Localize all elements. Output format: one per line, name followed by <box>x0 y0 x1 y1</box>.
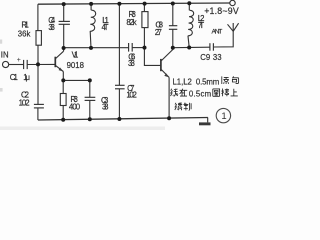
svg-text:C1: C1 <box>10 73 18 82</box>
glyph shang (on) line2 <box>231 89 238 96</box>
resistor R3 82k <box>142 4 148 48</box>
inductor L1 <box>90 4 96 48</box>
node rail C7 <box>117 2 121 6</box>
capacitor C1 <box>24 60 28 69</box>
node input <box>36 62 40 66</box>
wire V2 base tap <box>144 48 160 66</box>
glyph zai (at) line2 <box>180 89 188 97</box>
svg-text:1: 1 <box>221 111 226 122</box>
svg-text:7T: 7T <box>198 21 205 30</box>
wire V1 collector line <box>64 47 129 49</box>
node L2 bottom <box>187 46 191 50</box>
svg-text:0.5mm: 0.5mm <box>196 77 219 86</box>
svg-text:V1: V1 <box>72 51 79 60</box>
wire input to C1 <box>9 64 24 66</box>
bottom edge scan shade <box>0 127 165 131</box>
glyph bao (wrap) line1 <box>232 76 239 83</box>
capacitor C4 <box>59 4 70 48</box>
capacitor C6 <box>129 43 133 52</box>
svg-text:4T: 4T <box>102 23 109 32</box>
node V2 base <box>143 46 147 50</box>
svg-text:1μ: 1μ <box>23 73 30 82</box>
node V1 emitter <box>61 78 65 82</box>
transistor V1 <box>55 48 63 80</box>
node rail R2 <box>61 118 65 122</box>
svg-text:36k: 36k <box>18 29 31 38</box>
wire bottom ground rail <box>37 108 39 120</box>
svg-text:R1: R1 <box>21 21 28 30</box>
svg-text:9018: 9018 <box>67 61 84 70</box>
glyph xian (wire) line2 <box>171 89 178 97</box>
node V1 collector <box>62 46 66 50</box>
svg-text:C9: C9 <box>200 53 210 62</box>
svg-text:82k: 82k <box>126 18 136 27</box>
node rail C3 <box>88 117 92 121</box>
terminal +V supply <box>230 0 235 5</box>
node rail L1 <box>89 2 93 6</box>
capacitor C9 <box>210 43 214 51</box>
junction dots <box>36 1 191 121</box>
capacitor C7 <box>115 4 125 119</box>
antenna ANT <box>228 23 239 31</box>
wire top supply rail <box>37 4 39 30</box>
resistor R1 <box>36 31 41 60</box>
node C3 top <box>88 78 92 82</box>
fake CJK glyphs for note text <box>171 76 239 110</box>
resistor R2 400 <box>60 80 66 119</box>
scan smudge left edge lower <box>0 88 3 92</box>
node rail V2 emitter <box>167 116 171 120</box>
capacitor C3 <box>85 80 96 119</box>
inductor L2 <box>188 3 194 47</box>
wire C9 to antenna <box>214 23 234 47</box>
svg-text:33: 33 <box>213 53 222 62</box>
node V2 collector <box>171 46 175 50</box>
svg-text:0.5cm: 0.5cm <box>189 89 211 98</box>
node L1 bottom <box>89 46 93 50</box>
svg-text:ANT: ANT <box>212 28 223 35</box>
node rail R3 <box>143 2 147 6</box>
svg-text:27: 27 <box>155 28 162 37</box>
svg-text:+: + <box>17 57 21 64</box>
svg-text:33: 33 <box>102 102 109 111</box>
svg-text:IN: IN <box>1 50 9 59</box>
svg-text:33: 33 <box>48 23 55 32</box>
node rail C8 <box>171 2 175 6</box>
glyph zhi (make) line3 <box>184 103 192 111</box>
wire V2 collector tank line <box>173 46 210 49</box>
terminal IN <box>3 61 9 67</box>
svg-text:102: 102 <box>19 98 30 107</box>
svg-text:102: 102 <box>126 91 136 100</box>
transistor V2 <box>161 48 173 119</box>
node rail C4 <box>62 2 66 6</box>
circled number 1 <box>216 108 230 122</box>
node rail C7 bottom <box>117 117 121 121</box>
glyph rao (wind) line3 <box>175 103 182 111</box>
svg-text:33: 33 <box>128 59 135 68</box>
wire input node vertical <box>37 60 39 104</box>
scan smudge left edge upper <box>0 40 2 44</box>
ground symbol <box>199 118 211 126</box>
wire V1 emitter line <box>63 79 90 81</box>
svg-text:+1.8~9V: +1.8~9V <box>204 6 239 16</box>
glyph bang (rod) line2 <box>221 89 229 97</box>
svg-text:400: 400 <box>69 102 81 111</box>
capacitor C2 <box>34 104 44 108</box>
capacitor C8 <box>169 4 177 48</box>
wire C1 to V1 base <box>27 63 55 65</box>
svg-text:L1,L2: L1,L2 <box>173 77 192 86</box>
glyph yuan (round) line2 <box>213 89 220 96</box>
glyph qi (lacquer) line1 <box>222 76 229 84</box>
node rail L2 <box>187 1 191 5</box>
